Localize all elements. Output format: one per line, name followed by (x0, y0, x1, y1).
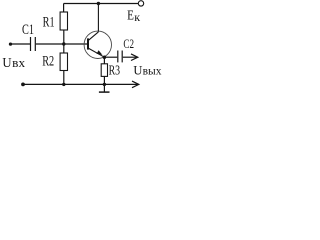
svg-text:R1: R1 (43, 14, 55, 30)
svg-text:U: U (2, 56, 11, 71)
svg-text:E: E (127, 8, 134, 23)
svg-text:C1: C1 (22, 22, 34, 38)
svg-text:к: к (134, 10, 140, 24)
svg-text:R2: R2 (42, 54, 54, 70)
svg-text:вых: вых (143, 65, 162, 77)
svg-text:C2: C2 (123, 37, 134, 51)
svg-text:U: U (133, 63, 142, 77)
svg-text:вх: вх (12, 56, 26, 70)
svg-text:R3: R3 (109, 63, 121, 78)
